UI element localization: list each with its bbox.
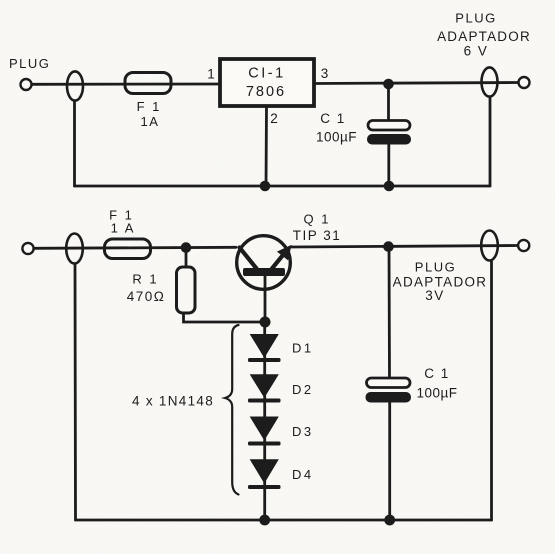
wire C1 bottom to rail (bottom) [388, 403, 391, 521]
svg-text:7806: 7806 [246, 84, 286, 100]
svg-text:F 1: F 1 [137, 99, 162, 114]
junction node (diodes / rail) [259, 515, 270, 526]
svg-text:R 1: R 1 [132, 272, 158, 287]
connector sleeve (bottom output) [481, 231, 498, 261]
svg-text:470Ω: 470Ω [127, 289, 166, 304]
svg-text:3V: 3V [425, 288, 445, 303]
junction node (pin2 / rail) [260, 181, 271, 192]
diode D2 [251, 375, 278, 397]
junction node (base / diode chain) [260, 317, 271, 328]
wire right vertical (top circuit) [489, 98, 492, 187]
junction node (fuse / R1) [181, 242, 192, 253]
junction node (C1 / rail) [384, 181, 395, 192]
diode D4 [251, 460, 278, 482]
capacitor C1 (bottom) negative plate [366, 392, 412, 403]
svg-text:D4: D4 [292, 467, 314, 482]
label PLUG ADAPTADOR 6V [437, 11, 531, 59]
svg-text:1 A: 1 A [111, 221, 136, 236]
svg-text:6 V: 6 V [464, 44, 489, 59]
svg-text:1: 1 [207, 67, 215, 82]
junction node (C1 / rail bottom) [384, 515, 395, 526]
connector sleeve (bottom input) [66, 234, 83, 264]
wire right vertical (bottom circuit) [490, 262, 493, 521]
label PLUG ADAPTADOR 3V [393, 260, 488, 304]
svg-text:PLUG: PLUG [9, 56, 50, 71]
svg-text:ADAPTADOR: ADAPTADOR [437, 29, 531, 44]
wire left vertical (top circuit) [73, 102, 76, 187]
capacitor C1 (top) positive plate [368, 121, 410, 131]
svg-text:C 1: C 1 [320, 111, 346, 126]
diode D3 [251, 417, 278, 439]
fuse F1 (bottom) [105, 239, 151, 259]
svg-text:D1: D1 [292, 341, 314, 356]
wire junction to R1 [185, 248, 188, 267]
svg-text:CI-1: CI-1 [248, 66, 285, 82]
wire Q1 emitter to output [292, 246, 519, 248]
wire top input to CI-1 pin 1 [32, 83, 220, 86]
terminal tip (top output plug) [519, 77, 530, 88]
terminal tip (bottom input plug) [22, 243, 33, 254]
transistor Q1 collector lead [240, 248, 257, 269]
capacitor C1 (top) negative plate [367, 134, 411, 145]
svg-text:D3: D3 [292, 424, 314, 439]
svg-text:2: 2 [270, 111, 278, 126]
resistor R1 [177, 267, 196, 313]
wire junction to C1 (bottom) [388, 247, 391, 379]
wire bottom rail (top circuit) [75, 185, 491, 188]
wire bottom input to Q1 [34, 247, 236, 248]
diode D1 [251, 335, 278, 357]
transistor Q1 circle [237, 236, 291, 290]
wire CI-1 pin 3 to output terminal [314, 83, 518, 84]
transistor Q1 emitter lead [272, 253, 285, 269]
wire C1 bottom to ground rail [387, 145, 390, 187]
junction node (pin3 / C1) [383, 79, 394, 90]
regulator IC CI-1 7806 [220, 59, 314, 106]
connector sleeve (top input) [67, 71, 83, 100]
svg-text:C 1: C 1 [424, 366, 450, 381]
svg-text:Q 1: Q 1 [304, 212, 331, 227]
svg-text:3: 3 [321, 66, 329, 81]
svg-text:100µF: 100µF [416, 386, 457, 401]
svg-text:PLUG: PLUG [415, 260, 456, 275]
svg-text:100µF: 100µF [316, 130, 357, 145]
junction node (emitter / C1) [383, 241, 394, 252]
terminal tip (bottom output plug) [518, 240, 529, 251]
wire CI-1 pin 2 down [265, 106, 268, 186]
svg-text:4 x 1N4148: 4 x 1N4148 [132, 394, 214, 409]
transistor Q1 emitter arrowhead [279, 247, 290, 259]
wire diode chain vertical [263, 322, 266, 520]
wire Q1 base down [264, 276, 267, 322]
transistor Q1 base bar [243, 268, 285, 276]
brace (diode group) [225, 325, 239, 495]
wire bottom rail (bottom circuit) [76, 519, 492, 522]
wire junction to C1 top [387, 84, 390, 121]
capacitor C1 (bottom) positive plate [367, 378, 411, 388]
wire left vertical (bottom circuit) [74, 265, 77, 521]
svg-text:PLUG: PLUG [455, 11, 496, 26]
svg-text:D2: D2 [292, 382, 314, 397]
wire R1 bottom to base node [184, 313, 266, 322]
terminal tip (top input plug) [21, 79, 32, 90]
fuse F1 (top) [125, 73, 171, 94]
svg-text:1A: 1A [141, 114, 160, 129]
svg-text:TIP 31: TIP 31 [293, 228, 342, 243]
connector sleeve (top output) [482, 67, 498, 96]
